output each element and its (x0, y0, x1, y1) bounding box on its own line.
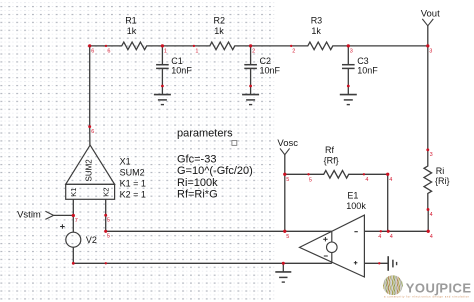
svg-text:1k: 1k (214, 26, 224, 36)
svg-text:V2: V2 (86, 235, 97, 245)
svg-text:3: 3 (430, 152, 433, 158)
svg-text:Rf=Ri*G: Rf=Ri*G (177, 189, 218, 201)
svg-text:K1 = 1: K1 = 1 (120, 178, 146, 188)
svg-text:6: 6 (91, 129, 94, 135)
node marker junction node 2 (249, 44, 252, 47)
wire top bus (90, 45, 106, 47)
wire Vosc to Rf (285, 173, 309, 175)
svg-text:5: 5 (286, 234, 289, 240)
capacitor C3 (342, 46, 355, 86)
youspice logo ball (383, 275, 403, 296)
node marker pin R1.1 (105, 45, 107, 47)
svg-text:G=10^(-Gfc/20): G=10^(-Gfc/20) (177, 165, 253, 177)
node marker corner node 5 (104, 230, 107, 233)
svg-text:10nF: 10nF (260, 66, 281, 76)
node marker wire end node 0 (105, 262, 107, 264)
SUM2 K1 pin (72, 199, 74, 215)
node dot C1 bottom (161, 85, 164, 88)
svg-text:R2: R2 (214, 15, 226, 25)
node marker pin Rf.2 (363, 173, 365, 175)
op-amp X1 SUM2 summing block (66, 145, 115, 184)
svg-text:5: 5 (107, 218, 110, 224)
node marker junction node 3 (347, 44, 350, 47)
svg-text:X1: X1 (120, 156, 131, 166)
svg-text:5: 5 (286, 177, 289, 183)
ground under C2 (242, 86, 259, 105)
wire Vstim to K1 (54, 214, 74, 216)
node marker pin V2.n (72, 262, 75, 265)
svg-text:3: 3 (350, 49, 353, 55)
svg-text:6: 6 (107, 49, 110, 55)
svg-text:R3: R3 (311, 15, 323, 25)
svg-text:4: 4 (378, 234, 381, 240)
wire K2 to E1 plus input (106, 215, 332, 231)
node marker pin X1.K2 (104, 214, 107, 217)
svg-text:SUM2: SUM2 (120, 167, 145, 177)
svg-text:C2: C2 (260, 56, 272, 66)
wire Vosc node down to E1 input (284, 174, 286, 231)
ground under C3 (340, 86, 357, 105)
wire Vout column down to Ri (427, 46, 429, 150)
svg-text:1: 1 (195, 49, 198, 55)
svg-text:a community for electronics de: a community for electronics design and s… (384, 296, 470, 299)
node dot C3 bottom (347, 85, 350, 88)
svg-text:C3: C3 (357, 56, 369, 66)
capacitor C2 (244, 46, 257, 86)
wire node4 up to Ri (427, 210, 429, 232)
resistor R1 (106, 42, 162, 50)
node marker pin R2.1 (193, 45, 195, 47)
svg-text:10nF: 10nF (171, 66, 192, 76)
svg-text:{Ri}: {Ri} (435, 176, 450, 186)
svg-text:6: 6 (91, 49, 94, 55)
svg-text:1: 1 (164, 49, 167, 55)
schematic grid (0, 0, 277, 302)
node marker junction node 4 (387, 230, 390, 233)
svg-text:{Rf}: {Rf} (324, 156, 339, 166)
svg-text:4: 4 (430, 212, 433, 218)
node marker pin Rf.1 (307, 173, 309, 175)
svg-text:Rf: Rf (325, 145, 334, 155)
node marker pin R3.1 (290, 45, 292, 47)
capacitor C1 (156, 46, 169, 86)
wire bottom V2 to E1 minus input (73, 262, 332, 264)
svg-text:4: 4 (390, 234, 393, 240)
resistor R2 (194, 42, 251, 50)
svg-text:Vstim: Vstim (17, 210, 41, 221)
SUM2 K2 pin (105, 199, 107, 215)
port Vout (422, 19, 433, 26)
svg-text:100k: 100k (346, 201, 366, 211)
node marker pin Ri.2 (427, 208, 430, 211)
svg-text:YOU∫PICE: YOU∫PICE (406, 280, 472, 295)
svg-text:C1: C1 (171, 56, 183, 66)
controlled source E1 (300, 215, 365, 277)
svg-text:5: 5 (309, 177, 312, 183)
voltage source V2 (72, 216, 74, 233)
node marker junction node 3 Vout (426, 44, 429, 47)
svg-text:4: 4 (430, 234, 433, 240)
resistor Ri (424, 150, 432, 210)
svg-text:E1: E1 (347, 190, 358, 200)
ground right rotated (388, 256, 396, 271)
ground under C1 (154, 86, 171, 105)
node marker junction node 4 right (427, 230, 430, 233)
node marker pin X1.out (88, 125, 91, 128)
node marker pin E1.out+ (380, 230, 382, 232)
node dot C2 bottom (249, 85, 252, 88)
wire node1 to R2 (162, 45, 194, 47)
svg-text:Ri=100k: Ri=100k (177, 177, 218, 189)
svg-text:10nF: 10nF (357, 66, 378, 76)
svg-text:Vosc: Vosc (277, 138, 298, 149)
svg-text:parameters: parameters (177, 128, 233, 140)
svg-text:Ri: Ri (436, 166, 445, 176)
svg-text:7: 7 (75, 218, 78, 224)
svg-text:K2 = 1: K2 = 1 (120, 189, 146, 199)
wire SUM2 output up to R1 (89, 46, 91, 145)
svg-text:K2: K2 (101, 188, 110, 197)
wire node3 to Vout (348, 45, 428, 47)
node marker pin E1.out- (378, 262, 380, 264)
svg-text:1k: 1k (311, 26, 321, 36)
resistor Rf (309, 171, 364, 179)
ground bottom middle (275, 263, 291, 282)
node marker junction node 1 (161, 44, 164, 47)
resistor R3 (292, 42, 348, 50)
node marker junction ground tap (282, 262, 285, 265)
svg-text:Gfc=-33: Gfc=-33 (177, 154, 216, 166)
wire node2 to R3 (251, 45, 293, 47)
svg-text:SUM2: SUM2 (85, 159, 94, 182)
svg-text:4: 4 (389, 177, 392, 183)
wire Rf to node4 corner (364, 174, 388, 231)
svg-text:5: 5 (107, 234, 110, 240)
wire E1 output bottom to ground (364, 262, 388, 264)
node marker junction node 7 (72, 214, 75, 217)
svg-text:3: 3 (429, 49, 432, 55)
svg-text:2: 2 (252, 49, 255, 55)
svg-text:4: 4 (365, 177, 368, 183)
node marker corner node 5 Vosc (283, 173, 286, 176)
node marker junction node 5 (283, 230, 286, 233)
svg-text:K1: K1 (69, 188, 78, 197)
svg-text:2: 2 (292, 49, 295, 55)
node marker pin Ri.1 (426, 148, 429, 151)
svg-text:Vout: Vout (421, 9, 440, 20)
wire E1 output top (node 4) (364, 230, 428, 232)
svg-text:1k: 1k (127, 26, 137, 36)
svg-text:R1: R1 (125, 15, 137, 25)
node marker corner node 4 (386, 173, 389, 176)
node marker junction node 6 corner (88, 44, 91, 47)
